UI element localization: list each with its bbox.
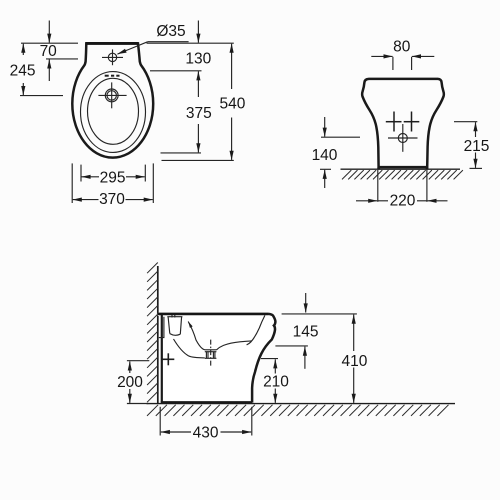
svg-text:430: 430 (193, 424, 219, 441)
svg-text:80: 80 (393, 39, 411, 56)
svg-text:375: 375 (186, 105, 212, 122)
svg-text:130: 130 (185, 51, 211, 68)
svg-text:295: 295 (100, 169, 126, 186)
svg-text:210: 210 (263, 374, 289, 391)
svg-text:200: 200 (117, 374, 143, 391)
svg-text:540: 540 (219, 95, 245, 112)
svg-text:70: 70 (40, 43, 58, 60)
svg-text:245: 245 (10, 63, 36, 80)
svg-text:145: 145 (293, 324, 319, 341)
svg-text:410: 410 (341, 353, 367, 370)
svg-text:370: 370 (99, 191, 125, 208)
svg-text:220: 220 (390, 192, 416, 209)
svg-text:140: 140 (312, 147, 338, 164)
svg-text:Ø35: Ø35 (156, 23, 185, 40)
svg-text:215: 215 (464, 138, 490, 155)
